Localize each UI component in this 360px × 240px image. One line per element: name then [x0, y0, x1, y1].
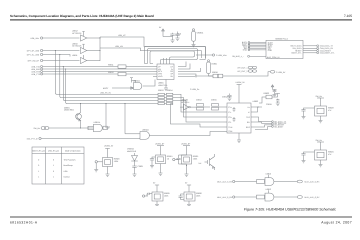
svg-text:1: 1: [38, 170, 39, 173]
wire U0810A input: [112, 87, 134, 90]
pin SB row3: [242, 44, 266, 47]
wire pin3 enable stub: [43, 55, 70, 57]
ground block1: [319, 116, 323, 123]
svg-text:GND: GND: [268, 49, 273, 52]
wire gate A out up to bus: [102, 104, 109, 128]
resistor R0827: [257, 180, 265, 184]
power block1 SW_B+: [316, 95, 325, 106]
svg-text:MIC_PTT_M: MIC_PTT_M: [27, 138, 38, 141]
wire row1 to R0827: [235, 181, 257, 183]
wire array to U0802 pin1: [173, 94, 223, 112]
zener VR0810: [127, 147, 138, 166]
wire U0811 output to rail: [87, 60, 100, 62]
wire SB right pin1: [303, 45, 334, 48]
capacitor cell T3: [150, 157, 156, 162]
svg-text:CAB_BOOT_CTL: CAB_BOOT_CTL: [320, 52, 335, 55]
svg-text:100K: 100K: [193, 158, 198, 161]
svg-text:C0819: C0819: [266, 103, 272, 106]
wire bus drop 3: [63, 67, 158, 101]
pin SB bus power: [232, 55, 266, 58]
wire U0802 right pin5 to SB flag 3: [255, 124, 285, 127]
power VCC top: [159, 26, 164, 37]
U0801 reference label: [158, 82, 168, 87]
wire row5 to U0801: [43, 66, 153, 68]
wire row7 to U0801: [43, 71, 153, 73]
ground pin T1: [94, 163, 98, 172]
pin row1 MUX_AUX_5_RX: [217, 180, 235, 183]
pin MIC_PTT circle: [27, 137, 41, 140]
svg-text:C0813: C0813: [196, 98, 202, 101]
resistor R0828: [257, 195, 265, 199]
svg-text:OPT_B+_USB: OPT_B+_USB: [27, 50, 40, 53]
svg-text:1: 1: [53, 164, 54, 167]
svg-text:R1I: R1I: [247, 121, 250, 124]
svg-text:VIP_OUT_2: VIP_OUT_2: [237, 70, 247, 73]
ground cell T2: [133, 170, 137, 177]
power cell T4: [181, 143, 191, 155]
svg-text:7-105: 7-105: [344, 14, 352, 18]
ground cell B2: [155, 201, 159, 205]
svg-text:R0813: R0813: [158, 89, 164, 92]
svg-text:100K: 100K: [196, 195, 201, 198]
power flag cluster right: [271, 85, 276, 97]
svg-text:0: 0: [53, 159, 54, 162]
footer rule: [10, 216, 352, 219]
IC U0802 RS232 transceiver: [227, 100, 258, 133]
svg-text:C0821: C0821: [138, 165, 144, 168]
wire MIC_PTT row to gate U0811B: [41, 137, 140, 140]
pin J0801-4: [28, 59, 43, 62]
svg-text:T2IN: T2IN: [228, 130, 233, 133]
wire Q0801 emitter to row: [80, 121, 82, 129]
svg-text:C2-: C2-: [228, 121, 231, 124]
wire USB_VM run: [100, 45, 202, 58]
wire row1 gate out: [274, 181, 297, 183]
svg-text:USB_CTS: USB_CTS: [31, 73, 40, 76]
wire SB flag 4: [255, 125, 284, 129]
svg-text:U0810A: U0810A: [133, 79, 141, 82]
svg-text:MUX_AUX_5_RX: MUX_AUX_5_RX: [217, 181, 233, 184]
wire SB right pin3: [303, 50, 332, 53]
svg-text:T1O: T1O: [246, 116, 250, 119]
svg-text:C-USB_5V: C-USB_5V: [276, 71, 286, 74]
svg-text:U0811B: U0811B: [142, 129, 149, 132]
ground cell T4: [185, 164, 189, 176]
gate U0811B: [140, 129, 149, 140]
svg-text:U0811: U0811: [72, 54, 77, 57]
pin P0803 spare a: [237, 66, 256, 69]
pin row1 out oval: [297, 180, 320, 184]
node Q0801 collector junction: [80, 103, 81, 104]
svg-text:GND: GND: [243, 49, 248, 52]
power cell T1: [104, 144, 114, 157]
wire pin4 to U0811 input: [43, 60, 80, 62]
svg-text:C-USB_D+: C-USB_D+: [190, 88, 200, 91]
wire U0802 right pin4 to SB flag 2: [255, 122, 287, 125]
resistor R0811: [108, 63, 126, 68]
ground cell B3: [187, 201, 191, 205]
resistor array R0813-R0817: [158, 89, 173, 104]
SB9600 pinout box: [266, 38, 303, 59]
wire row8 to U0801: [43, 73, 153, 75]
power block2 SW_B+: [316, 139, 325, 150]
svg-text:100K: 100K: [114, 160, 119, 163]
wire USB 5V feed: [195, 74, 213, 77]
U0802 pin stubs right: [251, 107, 255, 127]
wire bus drop 2: [60, 55, 158, 98]
wire array line4 run: [171, 104, 224, 128]
wire vertical tap to U0811B: [124, 103, 140, 134]
pin C-USB_VBUS: [212, 54, 227, 57]
pin P0803 spare b: [237, 70, 256, 73]
svg-text:C0812: C0812: [222, 96, 228, 99]
svg-text:Schematics, Component Location: Schematics, Component Location Diagrams,…: [10, 14, 154, 18]
capacitor cell T4: [176, 155, 186, 164]
pin cell T1: [95, 161, 102, 163]
wire nest stub left: [145, 63, 154, 65]
pin J0801-2: [27, 49, 43, 52]
resistor R0818: [212, 71, 218, 78]
pin SB row6: [243, 49, 266, 52]
resistor R0826: [184, 192, 202, 201]
wire array to U0802 pin4: [164, 94, 172, 103]
pin J0801-3: [27, 53, 43, 56]
svg-text:NC7SZ125: NC7SZ125: [72, 45, 81, 48]
svg-text:MMBT3904: MMBT3904: [64, 109, 74, 112]
transistor Q0810 NU: [199, 154, 215, 170]
svg-text:USB_RX_5V: USB_RX_5V: [100, 91, 112, 94]
svg-text:UNSW_B+: UNSW_B+: [155, 143, 165, 146]
wire U0811B output: [149, 132, 223, 136]
U0801 ground: [164, 80, 168, 91]
pin cell B2: [142, 195, 147, 197]
node taps to lower bus: [55, 50, 66, 70]
svg-text:0: 0: [38, 159, 39, 162]
ground block2: [319, 160, 323, 167]
buffer U0812: [72, 30, 87, 41]
pin J0801-1 USB_VBUS: [30, 37, 42, 40]
svg-text:R0814: R0814: [167, 89, 173, 92]
pin SW_B+ double oval: [34, 127, 49, 131]
svg-text:T1IN: T1IN: [228, 126, 233, 129]
svg-text:SB_BOOT: SB_BOOT: [274, 125, 284, 128]
wire U0812 output to rail: [87, 37, 100, 39]
U0801 right pin wires: [178, 62, 201, 78]
gate U0813B: [265, 188, 274, 201]
wire U0810 output to rail: [87, 50, 100, 52]
svg-text:R0812: R0812: [108, 71, 114, 74]
inductor E0801: [207, 60, 217, 74]
resistor R0824: [315, 150, 334, 160]
power cell B3: [185, 181, 191, 192]
svg-text:NC7SZ14: NC7SZ14: [181, 101, 189, 104]
gate U0813A: [265, 172, 274, 185]
svg-text:August 24, 2007: August 24, 2007: [321, 220, 352, 224]
resistor R0823: [315, 106, 334, 116]
capacitor cell T2: [132, 165, 143, 169]
svg-text:BOOT: BOOT: [103, 87, 109, 90]
wire nest ring 1: [148, 49, 198, 64]
buffer U0811: [72, 54, 87, 63]
pin J0801-8: [31, 73, 42, 76]
wire pin1 to U0812 input: [43, 37, 80, 39]
svg-text:MUX_AUX_6_RX: MUX_AUX_6_RX: [217, 196, 233, 199]
pin J0801-7: [31, 71, 42, 74]
wire nest ring 3: [145, 46, 206, 63]
svg-text:BOOT_RX_pin: BOOT_RX_pin: [32, 149, 45, 152]
table mode of operation: [32, 147, 84, 184]
svg-text:UNSW_5V: UNSW_5V: [104, 144, 114, 147]
svg-text:BUS_POW_IN: BUS_POW_IN: [267, 56, 280, 59]
ground C0824: [302, 157, 306, 163]
wire pin2 to U0810 input: [43, 50, 80, 52]
capacitor C0812: [222, 94, 232, 101]
wire USB_VP run: [100, 34, 206, 58]
svg-text:SB_BUS_+_-: SB_BUS_+_-: [232, 55, 244, 58]
svg-text:NC7SZ125: NC7SZ125: [72, 32, 81, 35]
power cell T3: [155, 143, 165, 155]
svg-text:Normal: Normal: [64, 175, 71, 178]
svg-text:10: 10: [167, 158, 169, 161]
resistor R0816: [103, 126, 107, 129]
svg-text:0: 0: [53, 170, 54, 173]
wire bus drop 1: [55, 51, 158, 95]
varistor VR0801: [192, 29, 204, 42]
capacitor C0814: [197, 107, 211, 110]
gate U0810A: [130, 78, 142, 90]
svg-text:R1O: R1O: [246, 126, 250, 129]
svg-text:OPT_SL_USB: OPT_SL_USB: [27, 54, 40, 57]
capacitor cell B2: [147, 193, 152, 196]
svg-text:C-USB_VB+: C-USB_VB+: [216, 54, 227, 57]
ground C0823: [302, 113, 306, 119]
pin row2 MUX_AUX_6_RX: [217, 196, 235, 199]
U0801 left pin stubs: [153, 67, 157, 77]
svg-text:USB_VB+: USB_VB+: [30, 37, 39, 40]
wire SB right pin4: [303, 52, 335, 55]
svg-text:6816532H01-A: 6816532H01-A: [10, 220, 38, 224]
capacitor C0823: [301, 108, 314, 113]
header rule: [10, 19, 352, 20]
ground VR0801: [192, 41, 196, 47]
svg-text:USB_VP: USB_VP: [118, 34, 126, 37]
capacitor C0817 internal: [233, 107, 236, 112]
svg-text:OPT_SW_B+: OPT_SW_B+: [28, 60, 40, 63]
svg-text:U0811A: U0811A: [94, 121, 101, 124]
svg-text:MUX_AUX_5_RX: MUX_AUX_5_RX: [305, 181, 321, 184]
capacitor C0815: [211, 98, 219, 106]
svg-text:USB_RX_pin: USB_RX_pin: [48, 149, 59, 152]
wire Q0801 collector: [80, 104, 82, 113]
wire SB right pin2: [303, 47, 334, 50]
wire SW_B+ row to gate U0811A: [49, 126, 94, 130]
wire array to U0802 pin3: [173, 101, 223, 123]
wire VBUS row: [196, 54, 212, 56]
wire U0802 right pin3 to SB flag 1: [255, 117, 287, 123]
svg-text:Mode of Operation: Mode of Operation: [65, 149, 81, 152]
ground cap T3: [150, 162, 154, 168]
svg-text:BOOT_CTL: BOOT_CTL: [292, 52, 302, 55]
capacitor cell B3: [179, 194, 185, 200]
svg-text:UNSW_5V: UNSW_5V: [236, 81, 246, 84]
pin cell T4: [173, 158, 179, 160]
pin J0801-6: [31, 68, 43, 71]
wire row2 gate out: [274, 196, 297, 198]
ground C0810: [171, 37, 175, 43]
pin SB row5: [244, 47, 266, 50]
svg-text:C0815: C0815: [211, 98, 217, 101]
wire row2 to R0828: [235, 196, 257, 198]
svg-text:MUX_AUX_6_RX: MUX_AUX_6_RX: [305, 196, 321, 199]
svg-text:UNSW_B+: UNSW_B+: [181, 143, 191, 146]
svg-text:VIP_OUT_1: VIP_OUT_1: [237, 66, 247, 69]
svg-text:Figure 7-105. HUE4040A USB/RS2: Figure 7-105. HUE4040A USB/RS232/SB9600 …: [244, 208, 336, 212]
capacitor C0810: [163, 33, 181, 37]
wire U0802 right pin1 to R0822: [255, 106, 259, 108]
resistor R0825: [152, 192, 170, 201]
capacitor C0811: [175, 32, 179, 41]
pin SB row1: [242, 41, 266, 44]
pin SB row2: [242, 43, 266, 46]
capacitor C0813: [196, 98, 204, 106]
ground U0802: [237, 133, 241, 142]
capacitor C0816: [212, 107, 224, 110]
U0801 top pin stubs: [161, 58, 170, 64]
svg-text:U0802: U0802: [253, 100, 259, 103]
svg-text:VR0801: VR0801: [197, 31, 204, 34]
svg-text:C1-: C1-: [228, 111, 231, 114]
resistor R0815: [156, 155, 173, 164]
svg-text:100K: 100K: [164, 195, 169, 198]
svg-text:E0801: E0801: [212, 62, 217, 65]
wire nest ring 2: [150, 51, 195, 64]
IC U0801 USB transceiver: [157, 64, 174, 80]
node gate A bus tap: [105, 103, 106, 104]
wire row6 to U0801: [43, 68, 153, 70]
pin J0801-5: [31, 66, 42, 69]
pin row2 out oval: [297, 196, 320, 200]
buffer U0812B: [180, 99, 197, 110]
capacitor C0819: [259, 99, 280, 107]
resistor R0812: [108, 71, 126, 76]
svg-text:Test Purposes: Test Purposes: [64, 159, 76, 162]
wire array to U0802 pin2: [173, 98, 223, 118]
ground cell T3: [159, 164, 163, 176]
resistor R0822 pull-up: [259, 92, 280, 103]
ground cell T1: [106, 167, 110, 177]
svg-text:1: 1: [38, 175, 39, 178]
wire 5V run to connector: [223, 72, 270, 76]
node cell T4 junction: [179, 164, 188, 166]
resistor R0819: [218, 74, 223, 78]
resistor R0820: [103, 158, 120, 167]
buffer U0810: [72, 42, 87, 53]
svg-text:R0818: R0818: [212, 71, 218, 74]
capacitor C0824: [301, 152, 314, 157]
svg-text:USB_VM: USB_VM: [115, 45, 123, 48]
transistor Q0801: [64, 106, 81, 121]
pin C-USB_5V oval: [270, 71, 286, 74]
wire U0810A output to U0801: [143, 80, 155, 87]
power U0802 VCC: [236, 81, 246, 103]
gate U0811A: [94, 121, 103, 132]
svg-text:1: 1: [53, 175, 54, 178]
svg-text:0: 0: [38, 164, 39, 167]
U0802 pin stubs left: [223, 107, 227, 132]
svg-text:USB1T11A: USB1T11A: [158, 84, 168, 87]
svg-text:SW_B+: SW_B+: [34, 127, 41, 130]
svg-text:Boot/Swap: Boot/Swap: [64, 164, 73, 167]
resistor R0821: [182, 155, 199, 164]
wire U0802 right pin2 to C0819: [255, 107, 259, 112]
capacitor C0818 internal: [233, 117, 236, 122]
node emitter row junction: [80, 127, 81, 128]
svg-text:VMO: VMO: [158, 75, 163, 78]
node rail outputs: [100, 37, 101, 61]
svg-text:MMSZ5V6: MMSZ5V6: [127, 150, 136, 153]
pin SB row4: [243, 46, 266, 49]
power cell B2: [153, 181, 159, 192]
svg-text:R0811: R0811: [108, 63, 113, 66]
wire bus drop 4: [66, 69, 158, 104]
svg-text:R0822: R0822: [264, 92, 270, 95]
